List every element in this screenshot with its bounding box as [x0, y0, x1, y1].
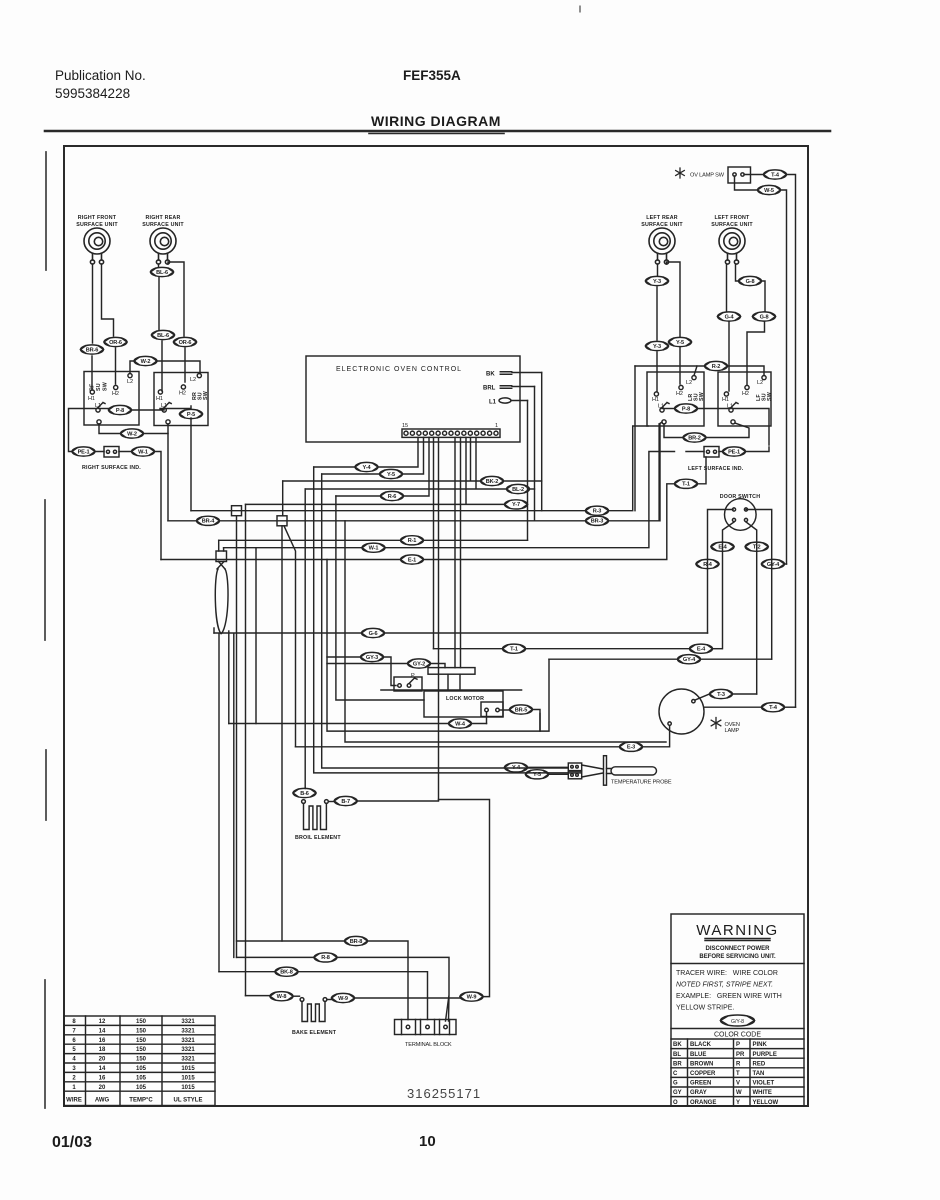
wire — [746, 522, 757, 694]
svg-text:BK-2: BK-2 — [486, 479, 498, 485]
wire — [695, 694, 710, 700]
ground box left surface ind — [704, 447, 719, 458]
svg-text:TRACER WIRE: WIRE COLOR: TRACER WIRE: WIRE COLOR — [676, 970, 778, 977]
wire — [746, 510, 772, 660]
svg-text:3321: 3321 — [181, 1028, 195, 1034]
connector BR-3 mesh — [586, 516, 609, 525]
wire — [168, 262, 184, 336]
wire — [530, 488, 535, 490]
wire — [246, 995, 271, 997]
main border — [64, 146, 808, 1106]
wire — [526, 648, 690, 650]
svg-text:BR-5: BR-5 — [515, 707, 527, 713]
svg-text:L2: L2 — [127, 379, 133, 385]
broil element — [302, 800, 329, 830]
svg-text:E-3: E-3 — [627, 745, 635, 751]
wire — [304, 489, 306, 788]
svg-text:W-4: W-4 — [455, 721, 466, 727]
scan artifact left edge — [45, 152, 46, 1108]
svg-text:B-7: B-7 — [341, 799, 350, 805]
svg-text:WHITE: WHITE — [753, 1090, 772, 1096]
wire — [403, 437, 424, 474]
svg-text:B-6: B-6 — [300, 791, 309, 797]
wire — [69, 409, 97, 452]
wire — [762, 281, 766, 312]
svg-text:BLUE: BLUE — [690, 1052, 706, 1058]
svg-text:OV LAMP SW: OV LAMP SW — [690, 173, 725, 179]
wire — [282, 481, 284, 516]
svg-text:150: 150 — [136, 1038, 147, 1044]
svg-text:OR-6: OR-6 — [179, 340, 192, 346]
svg-text:COPPER: COPPER — [690, 1071, 716, 1077]
header texts — [55, 68, 501, 129]
connector R-6 eoc — [381, 491, 404, 500]
svg-text:H1: H1 — [88, 396, 95, 402]
wire — [704, 706, 762, 708]
svg-text:P-8: P-8 — [682, 406, 690, 412]
connector W-4 lock — [449, 719, 472, 728]
junction square J2 — [277, 516, 287, 526]
wire — [91, 356, 93, 390]
svg-text:BLACK: BLACK — [690, 1042, 712, 1048]
wire — [167, 434, 169, 521]
svg-text:W-9: W-9 — [338, 996, 348, 1002]
wire — [708, 510, 734, 634]
connector BK-2 eoc — [481, 476, 504, 485]
svg-text:WIRING DIAGRAM: WIRING DIAGRAM — [371, 113, 501, 129]
connector GY-4 door — [762, 559, 785, 568]
svg-text:BK: BK — [486, 372, 495, 378]
svg-text:G-8: G-8 — [746, 279, 755, 285]
connector PE-1 right ind — [72, 447, 95, 456]
wire — [314, 466, 355, 468]
wire — [161, 559, 401, 561]
svg-text:16: 16 — [99, 1038, 106, 1044]
connector T-1 mesh — [503, 644, 526, 653]
wire — [220, 520, 586, 522]
connector GY-4 lamp line — [678, 655, 701, 664]
EOC output BRL — [483, 386, 535, 392]
wire — [686, 451, 723, 453]
svg-text:20: 20 — [99, 1085, 106, 1091]
wire — [213, 628, 215, 633]
EOC output BK — [486, 372, 542, 378]
switch LR SU SW — [647, 372, 705, 426]
wire — [304, 787, 306, 790]
wire — [184, 348, 186, 382]
wire — [158, 264, 160, 267]
svg-text:RIGHT REAR: RIGHT REAR — [146, 215, 181, 221]
wire — [746, 447, 770, 452]
connector E-4 door — [711, 542, 734, 551]
svg-text:C: C — [673, 1071, 678, 1077]
svg-text:316255171: 316255171 — [407, 1086, 481, 1101]
wire — [549, 773, 569, 775]
svg-text:EXAMPLE: GREEN WIRE WITH: EXAMPLE: GREEN WIRE WITH — [676, 993, 782, 1000]
svg-text:H2: H2 — [179, 391, 186, 397]
lock motor switch — [481, 702, 503, 717]
wire — [168, 520, 197, 522]
svg-text:BR-2: BR-2 — [688, 435, 700, 441]
svg-text:1015: 1015 — [181, 1085, 195, 1091]
wire — [130, 361, 135, 374]
terminal block — [395, 1020, 457, 1035]
svg-text:105: 105 — [136, 1066, 147, 1072]
svg-text:SURFACE UNIT: SURFACE UNIT — [142, 222, 184, 228]
svg-text:BR: BR — [673, 1061, 682, 1067]
wire — [115, 348, 117, 384]
svg-text:T-3: T-3 — [717, 692, 725, 698]
svg-text:RED: RED — [753, 1061, 766, 1067]
connector BR-6 right front H1 — [81, 345, 104, 354]
svg-text:BK: BK — [673, 1042, 682, 1048]
switch RF SU SW — [84, 372, 139, 426]
svg-text:TAN: TAN — [753, 1071, 765, 1077]
svg-text:COLOR CODE: COLOR CODE — [714, 1032, 761, 1039]
svg-text:W-5: W-5 — [764, 188, 774, 194]
svg-text:01/03: 01/03 — [52, 1134, 92, 1151]
svg-text:WIRE: WIRE — [66, 1098, 82, 1104]
svg-text:1015: 1015 — [181, 1075, 195, 1081]
svg-text:10: 10 — [419, 1133, 436, 1150]
wire — [298, 972, 428, 1020]
svg-text:R-6: R-6 — [388, 494, 397, 500]
svg-text:G-6: G-6 — [369, 631, 378, 637]
wire — [322, 473, 380, 475]
wire — [131, 409, 164, 411]
svg-text:BEFORE SERVICING UNIT.: BEFORE SERVICING UNIT. — [699, 954, 776, 960]
wire — [336, 495, 381, 497]
wire — [102, 264, 114, 336]
svg-text:Y-7: Y-7 — [512, 502, 520, 508]
svg-text:NOTED FIRST, STRIPE NEXT.: NOTED FIRST, STRIPE NEXT. — [676, 982, 773, 989]
svg-text:SW: SW — [767, 392, 773, 401]
svg-text:T-4: T-4 — [771, 172, 780, 178]
wire — [327, 999, 332, 1001]
connector PE-1 left ind — [723, 447, 746, 456]
svg-text:SURFACE UNIT: SURFACE UNIT — [711, 222, 753, 228]
svg-text:H2: H2 — [112, 391, 119, 397]
svg-text:GY: GY — [673, 1090, 682, 1096]
svg-text:15: 15 — [402, 423, 408, 429]
wire — [736, 264, 739, 281]
wire — [229, 723, 449, 725]
svg-text:PURPLE: PURPLE — [753, 1052, 777, 1058]
connector W-5 ov lamp sw — [758, 185, 781, 194]
wire — [368, 941, 409, 1020]
wire — [486, 712, 488, 724]
wire — [218, 634, 220, 972]
svg-text:BROWN: BROWN — [690, 1061, 713, 1067]
wire — [378, 437, 418, 467]
connector R-4 door — [696, 559, 719, 568]
wire — [728, 366, 765, 376]
svg-text:BK-8: BK-8 — [280, 970, 292, 976]
svg-text:H1: H1 — [722, 397, 729, 403]
wire — [214, 632, 362, 634]
connector T-2 door — [745, 542, 768, 551]
connector OR-6 right front H2 — [104, 337, 127, 346]
svg-text:P-5: P-5 — [187, 412, 195, 418]
wire — [659, 424, 661, 521]
wire — [305, 437, 506, 489]
svg-text:W-2: W-2 — [141, 359, 151, 365]
connector G-6 mesh — [362, 628, 385, 637]
svg-text:G/Y-8: G/Y-8 — [731, 1019, 744, 1025]
wire — [459, 674, 461, 689]
svg-text:Y-3: Y-3 — [653, 344, 661, 350]
wire — [236, 516, 238, 958]
twisted pair junction — [215, 540, 228, 633]
svg-text:Y-4: Y-4 — [363, 465, 372, 471]
svg-text:FEF355A: FEF355A — [403, 68, 461, 83]
wire — [357, 800, 439, 802]
wire — [190, 418, 192, 511]
svg-text:LEFT REAR: LEFT REAR — [646, 215, 678, 221]
wire — [657, 264, 659, 276]
svg-text:R-2: R-2 — [712, 364, 721, 370]
svg-text:L1: L1 — [489, 400, 497, 406]
svg-text:GY-3: GY-3 — [366, 655, 378, 661]
connector E-3 lamp — [620, 742, 643, 751]
wire — [785, 706, 796, 708]
svg-text:G-4: G-4 — [725, 314, 735, 320]
svg-text:BL-2: BL-2 — [512, 487, 524, 493]
EOC box ELECTRONIC OVEN CONTROL — [306, 356, 520, 442]
svg-text:V: V — [736, 1081, 740, 1087]
svg-text:T-2: T-2 — [753, 545, 761, 551]
wire — [439, 800, 490, 997]
connector G-8b left front — [753, 312, 776, 321]
oven lamp — [659, 689, 740, 734]
lock motor box — [424, 691, 503, 717]
wire — [224, 547, 362, 549]
wire — [237, 956, 315, 958]
wire — [609, 426, 649, 511]
connector BL-6 right rear top — [151, 267, 174, 276]
svg-text:Y: Y — [736, 1100, 740, 1106]
wire gauge table — [64, 1016, 215, 1106]
svg-text:SW: SW — [699, 392, 705, 401]
svg-text:R-8: R-8 — [321, 955, 330, 961]
wire — [228, 631, 230, 724]
wire — [701, 658, 772, 660]
svg-text:Publication No.: Publication No. — [55, 68, 146, 83]
wire — [527, 401, 529, 541]
wire — [504, 480, 542, 482]
lock motor bar — [381, 689, 522, 691]
svg-text:W-9: W-9 — [467, 994, 477, 1000]
svg-text:ORANGE: ORANGE — [690, 1100, 716, 1106]
header rule — [45, 130, 830, 133]
svg-text:Y-5: Y-5 — [533, 772, 541, 778]
svg-text:14: 14 — [99, 1066, 106, 1072]
wire — [98, 408, 109, 410]
svg-text:150: 150 — [136, 1057, 147, 1063]
svg-text:R: R — [736, 1061, 741, 1067]
wire — [155, 452, 162, 560]
svg-text:SU: SU — [96, 383, 102, 391]
svg-text:BR-4: BR-4 — [202, 519, 215, 525]
svg-text:L2: L2 — [190, 377, 196, 383]
connector BR-5 lock — [510, 705, 533, 714]
connector Y-7 eoc — [505, 500, 528, 509]
connector G-8 left front — [739, 276, 762, 285]
connector W-2 L2 link — [134, 356, 157, 365]
svg-text:P: P — [736, 1042, 740, 1048]
svg-text:BR-3: BR-3 — [591, 519, 603, 525]
wire — [733, 409, 769, 446]
svg-text:W-8: W-8 — [277, 994, 287, 1000]
wire — [322, 474, 568, 768]
svg-text:12: 12 — [99, 1019, 106, 1025]
connector Y-3 left rear — [646, 276, 669, 285]
connector BR-8 bottom — [345, 936, 368, 945]
connector Y-5 eoc — [380, 469, 403, 478]
connector E-1 mesh — [401, 555, 424, 564]
connector T-1 left ind — [675, 479, 698, 488]
svg-text:GY-4: GY-4 — [767, 562, 780, 568]
svg-text:P: P — [411, 673, 415, 679]
connector W-2 L1 link — [121, 429, 144, 438]
svg-text:14: 14 — [99, 1028, 106, 1034]
wire — [99, 424, 121, 434]
svg-text:3321: 3321 — [181, 1057, 195, 1063]
svg-text:UL STYLE: UL STYLE — [174, 1098, 203, 1104]
wire — [219, 971, 275, 973]
svg-text:BR-8: BR-8 — [350, 939, 362, 945]
svg-text:PE-1: PE-1 — [728, 449, 740, 455]
connector Y-3b left rear — [646, 341, 669, 350]
wire — [662, 408, 675, 410]
svg-text:W: W — [736, 1090, 742, 1096]
connector G-4 left front — [718, 312, 741, 321]
connector B-6 broil — [293, 788, 316, 797]
connector R-8 bottom — [314, 953, 337, 962]
junction square J1 — [232, 506, 242, 516]
svg-text:T-1: T-1 — [510, 647, 518, 653]
wire — [643, 726, 670, 747]
svg-text:SW: SW — [203, 391, 209, 400]
connector BK-8 bottom — [275, 967, 298, 976]
wire — [293, 995, 300, 997]
wire — [723, 522, 735, 649]
wire — [634, 366, 636, 511]
wire — [656, 352, 658, 391]
svg-text:PR: PR — [736, 1052, 745, 1058]
connector W-1 right ind — [132, 447, 155, 456]
connector W-9 bake — [332, 993, 355, 1002]
svg-text:BL-6: BL-6 — [156, 270, 168, 276]
switch RR SU SW — [154, 373, 209, 426]
wire — [336, 496, 424, 700]
EOC output L1 — [489, 398, 528, 406]
wire — [143, 424, 168, 434]
wire — [95, 451, 132, 453]
svg-text:BL-6: BL-6 — [157, 333, 169, 339]
svg-text:VIOLET: VIOLET — [753, 1081, 775, 1087]
wire — [92, 264, 94, 343]
svg-text:DISCONNECT POWER: DISCONNECT POWER — [705, 946, 770, 952]
svg-text:LAMP: LAMP — [725, 728, 740, 734]
wire — [296, 746, 620, 748]
surface unit coil left rear — [649, 228, 675, 264]
wire — [781, 190, 787, 564]
connector E-4 mesh — [690, 644, 713, 653]
svg-text:SURFACE UNIT: SURFACE UNIT — [76, 222, 118, 228]
wire — [283, 437, 481, 481]
svg-text:H1: H1 — [156, 396, 163, 402]
connector W-1 mesh — [362, 543, 385, 552]
svg-text:SW: SW — [103, 382, 109, 391]
wire — [158, 277, 160, 330]
connector P-8 left — [675, 404, 698, 413]
svg-text:AWG: AWG — [95, 1098, 110, 1104]
svg-text:G: G — [673, 1081, 678, 1087]
wire — [679, 348, 681, 385]
svg-text:PINK: PINK — [753, 1042, 768, 1048]
svg-text:G-8: G-8 — [760, 314, 769, 320]
wire — [314, 467, 581, 773]
svg-text:E-1: E-1 — [408, 557, 416, 563]
svg-text:O: O — [673, 1100, 678, 1106]
svg-text:LEFT FRONT: LEFT FRONT — [715, 215, 751, 221]
wire — [404, 437, 430, 496]
wire — [433, 437, 435, 648]
svg-text:3321: 3321 — [181, 1047, 195, 1053]
svg-text:W-1: W-1 — [138, 449, 148, 455]
svg-text:T-1: T-1 — [682, 482, 690, 488]
wire — [635, 365, 705, 367]
connector B-7 broil — [334, 796, 357, 805]
svg-text:Y-5: Y-5 — [387, 472, 395, 478]
svg-text:20: 20 — [99, 1057, 106, 1063]
wire — [385, 452, 675, 548]
svg-text:E-4: E-4 — [697, 647, 706, 653]
svg-text:LOCK MOTOR: LOCK MOTOR — [446, 696, 484, 702]
svg-text:PE-1: PE-1 — [78, 449, 90, 455]
svg-text:W-1: W-1 — [369, 546, 379, 552]
surface unit coil left front — [719, 228, 745, 264]
connector T-4 ov lamp sw — [764, 170, 787, 179]
connector R-1 mesh — [401, 536, 424, 545]
svg-text:Y-4: Y-4 — [512, 765, 521, 771]
connector Y-5 probe — [526, 770, 549, 779]
connector R-2 L2 left — [705, 361, 728, 370]
connector P-8 — [109, 405, 132, 414]
svg-text:1015: 1015 — [181, 1066, 195, 1072]
svg-text:W-2: W-2 — [127, 431, 137, 437]
svg-text:SURFACE UNIT: SURFACE UNIT — [641, 222, 683, 228]
svg-text:BROIL ELEMENT: BROIL ELEMENT — [295, 835, 341, 841]
svg-text:BAKE ELEMENT: BAKE ELEMENT — [292, 1030, 337, 1036]
svg-text:3321: 3321 — [181, 1038, 195, 1044]
svg-text:TERMINAL BLOCK: TERMINAL BLOCK — [405, 1042, 452, 1048]
wire — [706, 423, 749, 438]
wire — [384, 657, 397, 686]
connector T-3 lamp — [710, 689, 733, 698]
svg-text:ELECTRONIC OVEN CONTROL: ELECTRONIC OVEN CONTROL — [336, 366, 462, 373]
wire — [533, 659, 550, 731]
connector Y-5 left rear — [669, 337, 692, 346]
wire — [447, 674, 449, 689]
svg-text:H1: H1 — [652, 397, 659, 403]
wire — [337, 957, 449, 1021]
wire — [424, 539, 528, 541]
wire — [434, 648, 503, 650]
wire — [156, 361, 200, 374]
wire — [726, 264, 728, 311]
